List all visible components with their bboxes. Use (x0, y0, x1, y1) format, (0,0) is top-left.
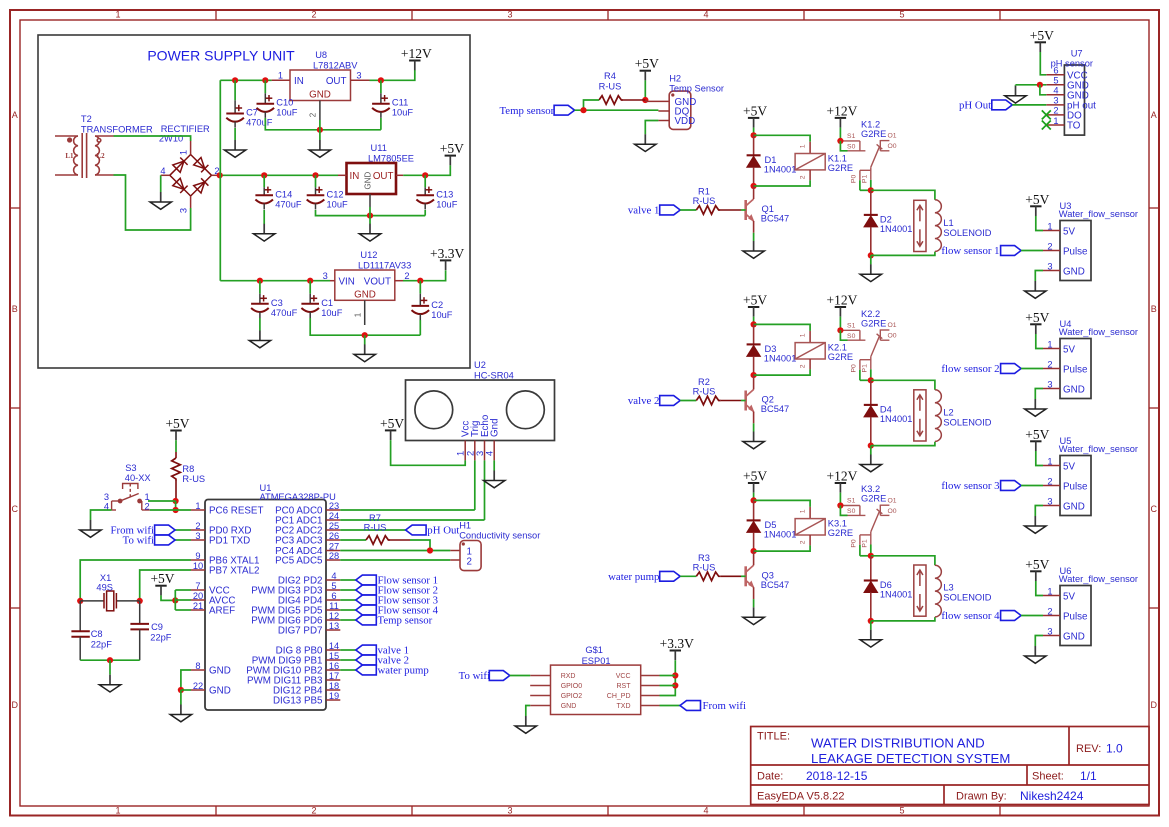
connector U7 pH sensor (1064, 65, 1084, 135)
svg-text:IN: IN (294, 76, 304, 87)
U7 pin 1 stub (1046, 124, 1064, 126)
U1 pin 13 stub (326, 629, 340, 631)
svg-text:1: 1 (1047, 456, 1052, 466)
wire transformer bottom to bridge pin3 (114, 175, 191, 230)
svg-text:1: 1 (353, 312, 362, 317)
svg-text:2: 2 (1047, 476, 1052, 486)
svg-text:R7: R7 (369, 513, 381, 523)
svg-text:+5V: +5V (743, 293, 767, 308)
solenoid L1 (914, 200, 942, 252)
svg-text:2: 2 (1047, 359, 1052, 369)
svg-text:28: 28 (329, 551, 339, 561)
net flag water pump (660, 571, 681, 581)
diode D2 anode lead (870, 190, 872, 215)
svg-text:+12V: +12V (826, 293, 857, 308)
wire U11 gnd net (316, 210, 426, 216)
ground under U11 (359, 224, 380, 241)
svg-text:O1: O1 (888, 497, 897, 504)
svg-text:valve 2: valve 2 (628, 395, 659, 407)
junction U7 gnd (1037, 82, 1043, 88)
U1 pin 15 stub (326, 659, 340, 661)
svg-text:1N4001: 1N4001 (880, 590, 913, 600)
wire flow sensor 2 to sensor (1021, 368, 1043, 370)
net flag Flow sensor 4 at U1 (356, 605, 377, 615)
svg-text:3: 3 (1047, 626, 1052, 636)
svg-text:G2RE: G2RE (828, 528, 853, 538)
wire switch pin1 to node (148, 500, 176, 502)
wire C2 to gnd net (419, 320, 421, 335)
svg-text:CH_PD: CH_PD (607, 693, 631, 700)
net flag pH Out at U1 (406, 525, 427, 535)
frame column tick bottom (411, 806, 413, 816)
U11 input stub (338, 174, 347, 176)
ground under U6 (1025, 646, 1046, 663)
U6 pin 1 stub (1043, 595, 1060, 597)
svg-text:G2RE: G2RE (861, 318, 886, 328)
svg-text:B: B (1151, 304, 1157, 314)
svg-text:1N4001: 1N4001 (764, 353, 797, 363)
wire collector node to relay K1.1 pin2 (754, 180, 811, 186)
svg-text:ESP01: ESP01 (582, 656, 611, 666)
svg-text:T2: T2 (81, 114, 92, 124)
svg-text:C2: C2 (431, 300, 443, 310)
svg-text:C9: C9 (151, 622, 163, 632)
wire solenoid gnd stem L3 (870, 621, 872, 630)
svg-text:IN: IN (350, 171, 360, 182)
wire U12 input rail (220, 280, 330, 282)
svg-text:Q1: Q1 (762, 204, 774, 214)
wire PC4 to H1 pin1 (340, 550, 450, 552)
diode D5 anode lead (753, 500, 755, 520)
svg-text:GND: GND (1063, 501, 1085, 512)
svg-text:K2.1: K2.1 (828, 342, 847, 352)
junction reset node (173, 507, 179, 513)
net flag From wifi at U1 (155, 525, 176, 535)
U7 pin 2 stub (1046, 114, 1064, 116)
G$1 pin TXD stub (641, 705, 660, 707)
svg-text:20: 20 (193, 591, 203, 601)
wire +5V to R8 (175, 440, 177, 452)
svg-text:5: 5 (1053, 76, 1058, 86)
svg-text:5: 5 (899, 10, 904, 20)
svg-text:C: C (1151, 504, 1158, 514)
wire +12V stem K2.2 (839, 317, 841, 331)
svg-text:470uF: 470uF (246, 118, 273, 128)
svg-text:PB7 XTAL2: PB7 XTAL2 (209, 566, 259, 577)
wire U1 gnd stem (180, 690, 182, 705)
ground under ESP01 (515, 716, 536, 733)
wire solenoid L2 bottom rail (871, 442, 935, 446)
net flag flow sensor 3 (1001, 481, 1022, 491)
svg-text:ATMEGA328P-PU: ATMEGA328P-PU (260, 492, 336, 502)
svg-text:40-XX: 40-XX (125, 473, 151, 483)
svg-text:Temp sensor: Temp sensor (499, 105, 554, 117)
svg-text:A: A (12, 110, 18, 120)
svg-text:K1.1: K1.1 (828, 153, 847, 163)
svg-text:D3: D3 (765, 344, 777, 354)
relay K3.1 pin 1 stub (809, 507, 811, 519)
junction C3 (257, 278, 263, 284)
svg-text:L1: L1 (65, 152, 74, 160)
ground under C14 (254, 224, 275, 241)
wire U12 gnd net (310, 318, 420, 335)
relay contact K3.2 G2RE (843, 505, 890, 545)
wire U1 to valve 2 (340, 659, 356, 661)
connector U6 Water_flow_sensor (1060, 586, 1091, 646)
U6 pin 2 stub (1043, 615, 1060, 617)
wire +5V stem Q3 (753, 493, 755, 501)
relay contact K1.2 G2RE (843, 140, 890, 180)
capacitor C10 (257, 80, 298, 118)
G$1 pin CH_PD stub (641, 695, 660, 697)
svg-text:S0: S0 (847, 143, 856, 150)
junction C13 (422, 172, 428, 178)
power flag +12V K1.1 (826, 103, 857, 127)
svg-text:2W10: 2W10 (159, 134, 183, 144)
svg-text:1: 1 (1047, 586, 1052, 596)
U12 pin 1 gnd (364, 300, 366, 325)
svg-text:R-US: R-US (599, 82, 622, 92)
wire +12V to S0 K3.2 (840, 506, 847, 516)
U1 pin 28 stub (326, 559, 340, 561)
capacitor C12 (307, 175, 348, 209)
U12 pin 2 stub (395, 280, 403, 282)
svg-text:PC6 RESET: PC6 RESET (209, 506, 263, 517)
wire P join K3.2 (860, 555, 871, 557)
G$1 pin RST stub (641, 685, 660, 687)
junction U11 gnd (367, 213, 373, 219)
junction AVCC (172, 597, 178, 603)
svg-text:C10: C10 (276, 98, 293, 108)
svg-text:TRANSFORMER: TRANSFORMER (81, 125, 153, 135)
R1 right lead (721, 209, 741, 211)
ground under U4 (1025, 399, 1046, 416)
U8 pin 1 stub (272, 79, 290, 81)
transformer T2 (55, 133, 114, 178)
resistor R3 (696, 572, 720, 581)
svg-text:R-US: R-US (693, 387, 716, 397)
svg-text:Water_flow_sensor: Water_flow_sensor (1059, 209, 1138, 219)
frame row tick left (10, 607, 20, 609)
svg-text:2018-12-15: 2018-12-15 (806, 769, 868, 783)
frame column tick top (999, 10, 1001, 20)
relay coil K3.1 G2RE (795, 519, 825, 535)
wire +5V to AVCC node (161, 595, 175, 600)
svg-text:LM7805EE: LM7805EE (368, 154, 414, 164)
svg-text:O0: O0 (888, 333, 897, 340)
wire U8 out to +12V (370, 70, 415, 80)
junction H1 node (427, 547, 433, 553)
svg-text:Water_flow_sensor: Water_flow_sensor (1059, 327, 1138, 337)
U1 pin 8 stub (191, 669, 205, 671)
svg-text:C11: C11 (392, 98, 408, 108)
U7 pin 4 stub (1046, 94, 1064, 96)
H2 VDD pin stub (658, 120, 669, 122)
U2 pin 3 stub (484, 441, 486, 461)
svg-text:3: 3 (1047, 379, 1052, 389)
power flag +5V U2 (380, 416, 404, 440)
wire +12V stem K3.2 (839, 493, 841, 506)
wire temp sensor DQ (575, 109, 659, 111)
svg-text:+5V: +5V (743, 103, 767, 118)
wire U3 gnd (1035, 271, 1043, 282)
wire U11 out to +5V (403, 165, 450, 175)
svg-text:RST: RST (617, 683, 632, 690)
diode D1 cathode lead (753, 167, 755, 186)
svg-text:R-US: R-US (693, 196, 716, 206)
net flag valve 1 at U1 (356, 645, 377, 655)
net flag Flow sensor 2 at U1 (356, 585, 377, 595)
U3 pin 3 stub (1043, 270, 1060, 272)
svg-text:3: 3 (356, 70, 361, 80)
transistor Q2 BC547 (746, 390, 754, 412)
ground under U1 (170, 705, 191, 722)
wire gnd stem U7 (1015, 85, 1017, 86)
wire solenoid L2 top rail (871, 380, 935, 390)
svg-text:Sheet:: Sheet: (1032, 771, 1064, 783)
wire node to U1 pin1 (150, 509, 191, 511)
wire R2 to base Q2 (741, 400, 746, 402)
svg-text:VIN: VIN (339, 277, 355, 288)
svg-text:+5V: +5V (150, 571, 174, 586)
crystal X1 49S (80, 591, 140, 611)
svg-text:G2RE: G2RE (861, 494, 886, 504)
svg-text:1N4001: 1N4001 (764, 164, 797, 174)
net flag flow sensor 2 (1001, 364, 1022, 374)
wire U1 to Flow sensor 4 (340, 609, 356, 611)
G$1 pin VCC stub (641, 675, 660, 677)
net flag To wifi at G$1 (489, 671, 510, 681)
power flag +5V U3 (1025, 192, 1049, 216)
wire to relay coil K3.1 pin1 (754, 500, 811, 507)
power flag +5V U6 (1025, 557, 1049, 581)
svg-text:P0: P0 (851, 539, 858, 548)
svg-text:pH Out: pH Out (959, 100, 991, 112)
module G$1 ESP01 (551, 665, 641, 714)
U4 pin 3 stub (1043, 388, 1060, 390)
svg-text:R-US: R-US (693, 562, 716, 572)
svg-text:BC547: BC547 (761, 214, 789, 224)
svg-text:1/1: 1/1 (1080, 769, 1097, 783)
diode D3 1N4001 (747, 344, 761, 356)
wire From wifi to U1 RXD (175, 529, 191, 531)
wire U8 input rail (220, 79, 271, 81)
wire +5V to U5 (1036, 451, 1043, 466)
ground under U7 (1005, 86, 1026, 103)
frame row tick right (1149, 607, 1159, 609)
G$1 pin GND stub (530, 705, 550, 707)
svg-text:1.0: 1.0 (1106, 742, 1123, 756)
svg-text:GND: GND (354, 290, 376, 301)
capacitor C9 (130, 601, 149, 660)
frame row tick left (10, 207, 20, 209)
svg-text:S1: S1 (847, 133, 856, 140)
svg-text:Q3: Q3 (762, 570, 774, 580)
svg-text:10uF: 10uF (321, 308, 343, 318)
connector U5 Water_flow_sensor (1060, 456, 1091, 516)
U1 pin 11 stub (326, 609, 340, 611)
capacitor C7 (226, 80, 272, 127)
wire PC0 to Trig (340, 509, 475, 511)
svg-text:To wifi: To wifi (459, 670, 490, 682)
wire +5V to U7 VCC (1040, 52, 1046, 75)
wire RST to +3.3V (660, 685, 676, 687)
svg-text:19: 19 (329, 691, 339, 701)
ground under C3 (249, 331, 270, 348)
svg-text:DIG13 PB5: DIG13 PB5 (273, 696, 323, 707)
R4 right lead (623, 99, 645, 101)
wire emitter to ground Q1 (753, 233, 755, 241)
svg-text:1: 1 (800, 509, 807, 513)
svg-text:S0: S0 (847, 333, 856, 340)
relay K2.1 pin 1 stub (809, 331, 811, 343)
U1 pin 5 stub (326, 589, 340, 591)
svg-text:water pump: water pump (608, 571, 659, 583)
U8 pin 2 stub (319, 101, 321, 121)
bridge pin 1 stub (190, 141, 192, 155)
ground under C7 (224, 140, 245, 157)
wire R7 to conductivity node (410, 540, 430, 551)
no-connect cross U7 TO (1042, 121, 1051, 130)
transistor Q3 BC547 (746, 565, 754, 587)
frame column tick bottom (999, 806, 1001, 816)
svg-text:GND: GND (364, 172, 373, 190)
wire R3 to base Q3 (741, 575, 746, 577)
U4 pin 1 stub (1043, 348, 1060, 350)
wire U1 to Flow sensor 3 (340, 599, 356, 601)
svg-text:2: 2 (800, 540, 807, 544)
ground under U5 (1025, 516, 1046, 533)
svg-text:R3: R3 (698, 553, 710, 563)
wire pH Out to U7 pin3 (1012, 104, 1046, 106)
svg-text:5V: 5V (1063, 591, 1075, 602)
svg-text:22: 22 (193, 681, 203, 691)
junction temp sensor (580, 107, 586, 113)
svg-text:To wifi: To wifi (123, 535, 154, 547)
junction solenoid bottom L2 (868, 443, 874, 449)
ground under solenoid L2 (860, 455, 881, 472)
svg-text:L3: L3 (943, 583, 953, 593)
svg-text:15: 15 (329, 651, 339, 661)
ground under U12 (354, 344, 375, 361)
svg-text:+5V: +5V (1025, 557, 1049, 572)
junction C14 (261, 172, 267, 178)
ground under solenoid L1 (860, 264, 881, 281)
junction crystal left (77, 598, 83, 604)
svg-text:10uF: 10uF (431, 310, 453, 320)
svg-text:D1: D1 (765, 155, 777, 165)
wire +5V to R4 (644, 80, 646, 100)
svg-text:U11: U11 (371, 143, 387, 153)
svg-text:+12V: +12V (826, 469, 857, 484)
ground under crystal (99, 675, 120, 692)
junction RST ESP01 (672, 682, 678, 688)
svg-text:LEAKAGE DETECTION SYSTEM: LEAKAGE DETECTION SYSTEM (811, 751, 1010, 766)
svg-text:27: 27 (329, 541, 339, 551)
module U2 HC-SR04 ultrasonic sensor (406, 380, 555, 441)
svg-text:O1: O1 (888, 133, 897, 140)
U1 pin 1 stub (191, 509, 205, 511)
svg-text:R-US: R-US (364, 523, 387, 533)
svg-text:4: 4 (331, 571, 336, 581)
svg-text:+3.3V: +3.3V (430, 246, 464, 261)
svg-text:EasyEDA V5.8.22: EasyEDA V5.8.22 (757, 791, 844, 803)
svg-text:G2RE: G2RE (828, 352, 853, 362)
wire solenoid L3 bottom rail (871, 617, 935, 621)
U11 output stub (396, 174, 403, 176)
bridge pin 4 stub (161, 174, 170, 176)
diode D3 anode lead (753, 324, 755, 344)
svg-text:+5V: +5V (1025, 192, 1049, 207)
svg-text:14: 14 (329, 641, 339, 651)
net flag Temp sensor (554, 105, 575, 115)
svg-text:+5V: +5V (440, 141, 464, 156)
wire flow sensor 1 to sensor (1021, 250, 1043, 252)
svg-text:1: 1 (1053, 116, 1058, 126)
svg-text:+3.3V: +3.3V (660, 636, 694, 651)
connector H2 Temp Sensor (669, 91, 691, 129)
junction solenoid top L1 (868, 187, 874, 193)
junction solenoid top L3 (868, 553, 874, 559)
svg-text:4: 4 (703, 10, 708, 20)
svg-text:Pulse: Pulse (1063, 246, 1088, 257)
wire contact P0 down K1.2 (859, 180, 861, 190)
wire to AREF pin (175, 609, 191, 611)
svg-text:PC5 ADC5: PC5 ADC5 (275, 556, 323, 567)
U1 pin 20 stub (191, 599, 205, 601)
svg-text:+5V: +5V (380, 416, 404, 431)
wire water pump to R3 (680, 575, 696, 577)
svg-text:3: 3 (1047, 261, 1052, 271)
wire PC2 to pH Out (340, 529, 405, 531)
svg-text:C8: C8 (91, 629, 103, 639)
svg-text:S0: S0 (847, 508, 856, 515)
svg-text:1: 1 (456, 451, 466, 456)
svg-text:2: 2 (195, 521, 200, 531)
net flag valve 1 (660, 205, 681, 215)
power flag +3.3V ESP01 (660, 636, 694, 660)
wire +12V to S0 K2.2 (840, 330, 847, 340)
wire +5V stem Q2 (753, 317, 755, 325)
wire contact P1 down K2.2 (870, 369, 872, 380)
relay coil K1.1 G2RE (795, 154, 825, 170)
junction R4 output (642, 97, 648, 103)
svg-text:2: 2 (404, 271, 409, 281)
voltage regulator U8 L7812ABV (290, 70, 351, 101)
svg-text:2: 2 (309, 112, 318, 117)
diode D1 anode lead (753, 135, 755, 155)
wire transformer top to bridge pin1 (114, 136, 191, 141)
U1 pin 6 stub (326, 599, 340, 601)
svg-text:SOLENOID: SOLENOID (943, 228, 991, 238)
svg-text:25: 25 (329, 521, 339, 531)
junction solenoid bottom L3 (868, 618, 874, 624)
svg-text:17: 17 (329, 671, 339, 681)
U5 pin 2 stub (1043, 485, 1060, 487)
svg-text:1N4001: 1N4001 (764, 529, 797, 539)
U7 pin 3 stub (1046, 104, 1064, 106)
junction U12 gnd (362, 332, 368, 338)
ground under U3 (1025, 281, 1046, 298)
svg-text:P1: P1 (861, 539, 868, 548)
svg-text:D4: D4 (880, 404, 892, 414)
svg-text:23: 23 (329, 501, 339, 511)
junction collector bottom Q1 (751, 183, 757, 189)
svg-text:2: 2 (1047, 241, 1052, 251)
net flag flow sensor 1 (1001, 246, 1022, 256)
wire R4 left lead (584, 100, 600, 110)
svg-text:G2RE: G2RE (828, 163, 853, 173)
